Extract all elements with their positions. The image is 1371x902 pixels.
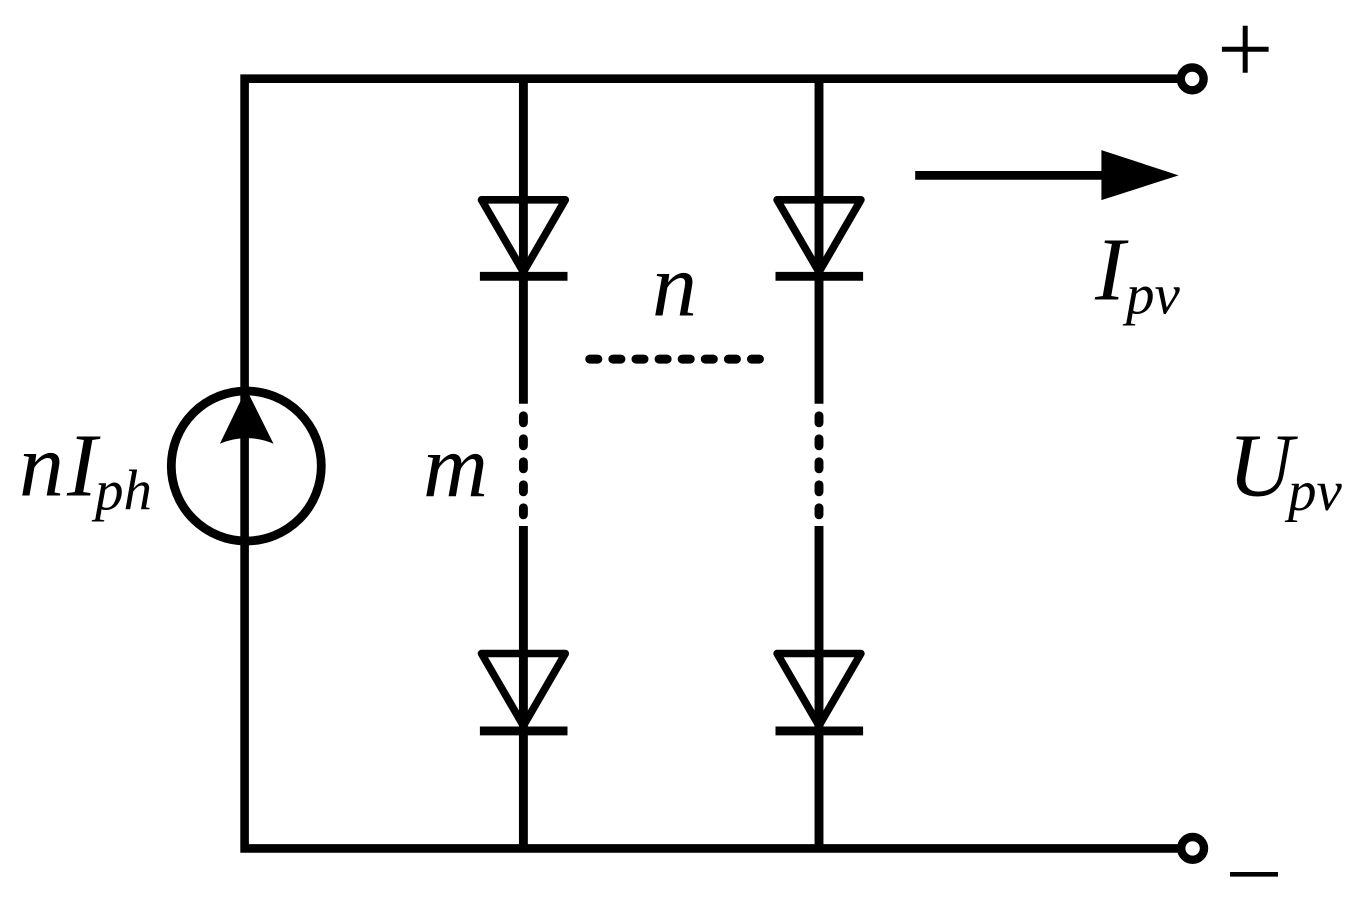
terminal node - (bottom right): [1181, 837, 1204, 860]
svg-text:ph: ph: [91, 459, 152, 522]
wire: left diode column vertical (upper solid): [519, 79, 528, 404]
current arrow Ipv: head: [1101, 150, 1178, 200]
diode D2 (left column, bottom): triangle outline: [482, 654, 566, 726]
minus sign label: [1230, 872, 1278, 877]
current source arrowhead: [220, 389, 274, 444]
diode D2 cathode bar: [480, 726, 568, 735]
diode D1 (left column, top): triangle outline: [482, 200, 566, 272]
plus sign label: [1222, 26, 1269, 73]
diode D4 (right column, bottom): triangle outline: [777, 654, 861, 726]
diode D1 cathode bar: [480, 272, 568, 281]
wire: right diode column vertical (upper solid): [815, 79, 824, 404]
wire: left diode column dashed middle: [519, 416, 528, 515]
svg-text:n: n: [652, 236, 697, 335]
wire: right diode column vertical (lower solid): [815, 526, 824, 848]
wire: left diode column vertical (lower solid): [519, 526, 528, 848]
svg-text:pv: pv: [1122, 264, 1181, 327]
svg-text:I: I: [1094, 220, 1129, 319]
svg-text:n: n: [19, 417, 64, 516]
current source nIph: circle: [171, 391, 321, 541]
diode D3 cathode bar: [776, 272, 864, 281]
diode D3 (right column, top): triangle outline: [777, 200, 861, 272]
terminal node + (top right): [1181, 68, 1204, 91]
current arrow Ipv: shaft: [915, 171, 1106, 180]
wire: right diode column dashed middle: [815, 416, 824, 515]
diode D4 cathode bar: [776, 726, 864, 735]
svg-text:pv: pv: [1284, 460, 1343, 523]
svg-text:m: m: [423, 418, 488, 517]
wire: horizontal dashed ellipsis between columns: [590, 355, 760, 364]
wire: outer loop top rail + left wire + bottom rail: [245, 79, 1181, 849]
